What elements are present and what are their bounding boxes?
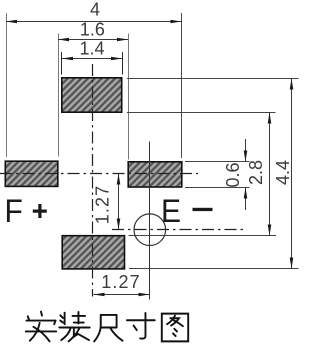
title character 安 xyxy=(26,312,56,342)
label plus sign xyxy=(33,204,47,218)
left pad F xyxy=(5,161,58,186)
svg-text:1.27: 1.27 xyxy=(101,272,140,292)
svg-text:1.27: 1.27 xyxy=(92,185,112,224)
dimension line 2.8 xyxy=(269,113,271,236)
dimension 0.6 upper arrow xyxy=(245,139,247,162)
svg-text:4.4: 4.4 xyxy=(273,160,293,185)
extension line left of dimension 4 xyxy=(6,13,8,157)
extension line right of dimension 1.6 xyxy=(128,34,130,160)
extension of top pad upper edge xyxy=(127,78,299,80)
dimension line 1.6 xyxy=(58,39,128,41)
vertical dimension line 1.27 xyxy=(118,174,120,230)
vertical center line through circle xyxy=(149,142,151,300)
label minus sign xyxy=(193,208,213,211)
title character 图 xyxy=(162,314,188,342)
bottom dimension line 1.27 xyxy=(94,294,150,296)
circle position marker xyxy=(134,214,166,246)
title character 尺 xyxy=(94,315,122,341)
bottom pad xyxy=(62,236,124,269)
extension of bottom pad lower edge xyxy=(129,268,299,270)
svg-text:1.4: 1.4 xyxy=(79,39,104,59)
svg-text:1.6: 1.6 xyxy=(80,20,105,40)
svg-text:2.8: 2.8 xyxy=(246,160,266,185)
top pad xyxy=(62,78,122,112)
extension of middle pad lower edge xyxy=(185,187,250,189)
title character 装 xyxy=(59,312,89,341)
svg-text:F: F xyxy=(4,193,22,229)
svg-text:E: E xyxy=(161,193,181,229)
dimension line 4.4 xyxy=(291,79,293,269)
vertical center line through top and bottom pads xyxy=(92,64,94,297)
svg-text:0.6: 0.6 xyxy=(223,162,243,187)
extension of middle pad upper edge xyxy=(185,161,250,163)
svg-text:4: 4 xyxy=(90,0,100,20)
horizontal center line through circle xyxy=(112,229,247,231)
title character 寸 xyxy=(127,313,155,339)
extension line left of dimension 1.4 xyxy=(61,52,63,75)
middle pad E xyxy=(128,162,182,187)
extension of top pad lower edge xyxy=(127,112,276,114)
extension line right of dimension 1.4 xyxy=(122,52,124,75)
extension of bottom pad upper edge xyxy=(129,235,277,237)
extension line left of dimension 1.6 xyxy=(58,34,60,157)
dimension 0.6 lower arrow xyxy=(245,188,247,211)
dimension line 1.4 xyxy=(62,58,122,60)
dimension line 4 xyxy=(6,21,182,23)
horizontal center line of middle pad row xyxy=(0,173,198,175)
extension line right of dimension 4 xyxy=(181,13,183,158)
